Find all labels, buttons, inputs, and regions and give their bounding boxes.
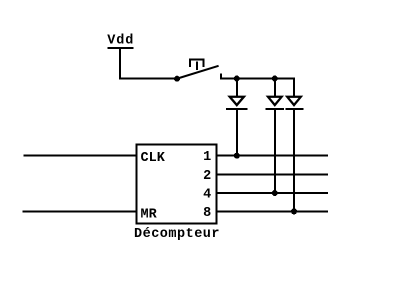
push-button actuator cap	[190, 59, 203, 67]
node D2 to pin 4	[272, 190, 278, 196]
svg-text:Vdd: Vdd	[107, 34, 134, 49]
node D3 to pin 8	[291, 208, 297, 214]
switch right terminal post	[220, 74, 222, 80]
diode D1	[226, 96, 247, 111]
wire D1 anode stub	[236, 79, 238, 98]
svg-text:2: 2	[203, 169, 211, 184]
svg-text:4: 4	[203, 188, 211, 203]
power Vdd rail bar	[107, 47, 133, 49]
wire D2 cathode to pin 4	[274, 110, 276, 193]
wire switch to diodes	[220, 78, 295, 80]
node switch left terminal	[174, 76, 180, 82]
diode D3	[285, 96, 304, 111]
wire CLK input	[24, 155, 137, 157]
svg-text:CLK: CLK	[141, 151, 166, 166]
wire to switch	[119, 78, 178, 80]
wire pin 1 output	[217, 155, 328, 157]
wire pin 4 output	[217, 192, 328, 194]
svg-text:8: 8	[203, 206, 211, 221]
wire pin 8 output	[217, 210, 328, 212]
wire D3 cathode to pin 8	[293, 110, 295, 212]
node D1 to pin 1	[234, 153, 240, 159]
wire corner down to D3	[293, 78, 295, 98]
wire D1 cathode to pin 1	[236, 110, 238, 156]
node diode D2 anode	[272, 76, 278, 82]
push-button actuator stem	[196, 62, 198, 71]
node diode D1 anode	[234, 76, 240, 82]
diode D2	[266, 96, 284, 111]
svg-text:Décompteur: Décompteur	[134, 227, 220, 242]
svg-text:MR: MR	[141, 207, 158, 222]
IC U1 Décompteur box	[137, 145, 217, 224]
wire D2 anode stub	[274, 79, 276, 98]
push-button switch blade	[178, 66, 219, 79]
wire from Vdd down	[119, 48, 121, 80]
wire MR input	[23, 210, 136, 212]
svg-text:1: 1	[203, 150, 211, 165]
wire pin 2 output	[217, 173, 328, 175]
